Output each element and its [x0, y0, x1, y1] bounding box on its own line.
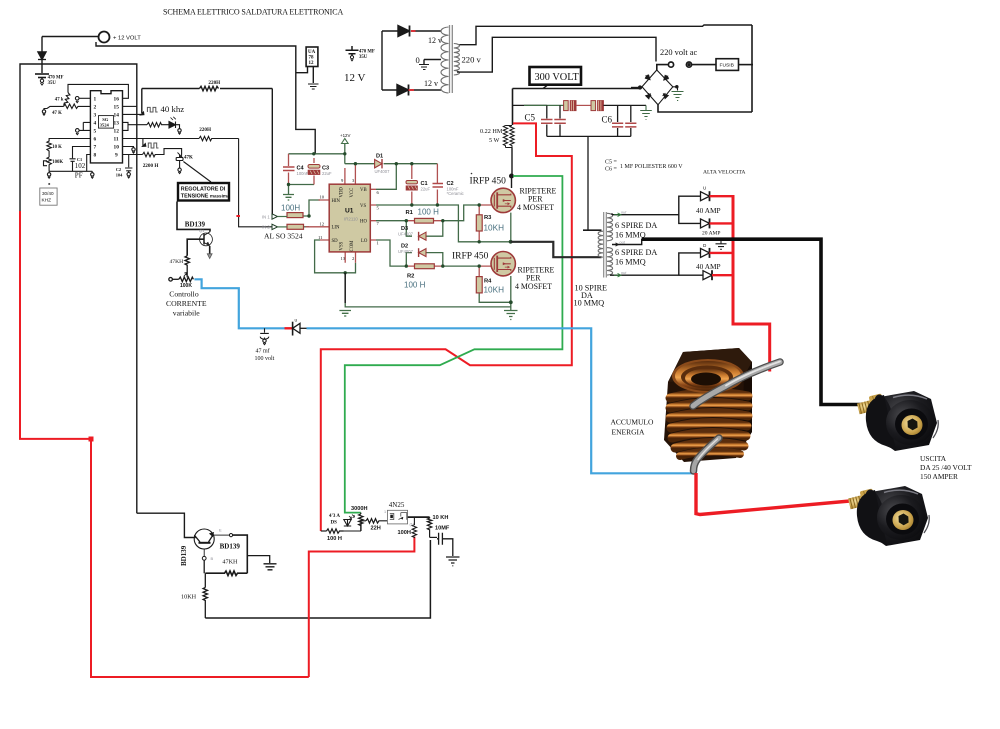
wire ground rail pins 7 8 — [49, 170, 92, 172]
svg-text:2: 2 — [352, 256, 355, 261]
transformer T1 secondary winding — [454, 44, 460, 76]
resistor R1 — [415, 218, 434, 223]
svg-text:100H: 100H — [398, 530, 411, 536]
wire pin8 down — [87, 155, 91, 172]
label 10 SPIRE DA 10 MMQ — [574, 284, 608, 308]
wire 300V rail — [513, 88, 640, 90]
wire 47k top rail to pin16 — [68, 84, 128, 98]
wire bridge dc plus — [631, 87, 641, 89]
wire mosfet2 source — [510, 276, 512, 310]
svg-text:AL SO 3524: AL SO 3524 — [264, 232, 303, 241]
svg-text:100H: 100H — [281, 204, 300, 213]
ground filter right green — [640, 105, 652, 119]
red tick diode u — [285, 327, 293, 329]
wire 4N25 out top — [408, 516, 430, 518]
wire left frame — [20, 64, 137, 513]
svg-text:40 AMP: 40 AMP — [696, 206, 721, 215]
wire mosfet drain junction — [510, 148, 514, 189]
svg-text:variabile: variabile — [173, 309, 200, 318]
wire pin9 — [123, 154, 143, 156]
resistor 2200H pin9 — [143, 149, 182, 157]
svg-text:4 MOSFET: 4 MOSFET — [517, 203, 554, 212]
svg-text:11: 11 — [114, 137, 119, 143]
svg-text:9: 9 — [115, 153, 118, 159]
wire C4C3 mid verticals — [289, 154, 315, 185]
svg-text:220 volt ac: 220 volt ac — [660, 48, 697, 57]
svg-text:12: 12 — [320, 221, 325, 226]
svg-text:10KH: 10KH — [181, 594, 197, 601]
fuse FUSIB box — [716, 59, 739, 71]
wire to diode2 — [679, 215, 701, 224]
bracket pins 4-5 to terminal — [80, 122, 91, 130]
ground UA7812 — [308, 84, 319, 89]
svg-text:22uF: 22uF — [421, 186, 431, 191]
wire filter green segment — [524, 104, 564, 106]
svg-text:(1): (1) — [410, 523, 415, 527]
led DS — [344, 520, 362, 532]
transformer T1 core — [450, 25, 453, 93]
ground Q3 — [264, 564, 277, 570]
wire U1 vss black drop — [344, 273, 346, 303]
svg-text:u: u — [295, 318, 298, 323]
diode to terminal pin13 — [169, 122, 176, 129]
svg-text:4N25: 4N25 — [389, 501, 405, 509]
svg-text:ACCUMULO: ACCUMULO — [611, 418, 655, 427]
svg-text:5 W: 5 W — [489, 137, 500, 144]
capacitor 47mf 100volt — [260, 328, 269, 344]
svg-text:+ 12 VOLT: + 12 VOLT — [113, 35, 141, 41]
svg-text:47KH: 47KH — [222, 559, 238, 566]
wire green to 3000H — [360, 513, 362, 514]
capacitor C5b vertical — [559, 105, 561, 136]
wire U1 pin stubs red — [306, 164, 492, 277]
label RIPETERE PER 4 MOSFET bottom — [515, 266, 555, 292]
capacitor 10MF — [437, 533, 453, 556]
red tick IN2 wire — [236, 215, 240, 217]
svg-text:Controllo: Controllo — [169, 290, 199, 299]
svg-text:R2: R2 — [407, 274, 414, 280]
svg-text:5: 5 — [377, 206, 380, 211]
steel rod bottom — [694, 438, 720, 471]
svg-text:300 VOLT: 300 VOLT — [535, 72, 580, 83]
svg-text:12: 12 — [309, 61, 315, 66]
box 300 VOLT — [530, 67, 582, 89]
svg-text:13: 13 — [341, 256, 346, 261]
wire secondary bottom 220v — [457, 37, 656, 72]
svg-text:22H: 22H — [371, 526, 381, 532]
wire filter top rail right — [603, 104, 646, 106]
node terminal ac1 — [668, 62, 673, 67]
wire secondary top 220v — [459, 25, 752, 45]
label ACCUMULO ENERGIA — [611, 418, 655, 437]
potentiometer 100K — [47, 157, 52, 171]
resistor 100H opto vertical — [412, 524, 416, 538]
svg-text:9: 9 — [341, 178, 344, 183]
4N25 led — [390, 514, 394, 520]
wire VS net — [376, 205, 511, 242]
svg-text:1: 1 — [94, 96, 97, 102]
node red junction — [89, 437, 94, 442]
svg-text:U: U — [703, 186, 706, 191]
diode D3 — [419, 232, 426, 241]
diode D2 — [419, 248, 426, 257]
svg-text:3000H: 3000H — [351, 506, 367, 512]
wire pin13-12 bracket — [123, 122, 148, 130]
optocoupler 4N25 body — [387, 510, 407, 524]
svg-text:1 MF POLIESTER 600 V: 1 MF POLIESTER 600 V — [620, 164, 683, 170]
ground terminal left — [48, 171, 50, 172]
box REGOLATORE DI TENSIONE massima — [178, 183, 230, 201]
svg-text:10: 10 — [114, 145, 120, 151]
wire pin14 with arrow — [123, 113, 142, 115]
wire trafo primary top feed — [583, 229, 602, 231]
wire Q3 base to 10KH — [204, 560, 205, 587]
capacitor C2 ceramic — [433, 184, 444, 188]
svg-text:11: 11 — [318, 235, 323, 240]
transistor Q4 BD139 upper — [200, 233, 213, 246]
svg-text:IRFP 450: IRFP 450 — [470, 177, 507, 187]
resistor 100H led — [327, 529, 344, 534]
resistor 220H pin11 — [199, 136, 239, 141]
svg-text:C5 =: C5 = — [605, 160, 618, 166]
resistor 47k diagonal pin2-pin16 — [64, 93, 70, 106]
svg-text:ENERGIA: ENERGIA — [612, 428, 645, 437]
resistor 47KH q3 — [205, 571, 247, 576]
svg-text:IR2110: IR2110 — [344, 217, 358, 222]
plates C6 red — [612, 123, 636, 127]
svg-text:COM: COM — [350, 240, 355, 252]
svg-text:7: 7 — [377, 221, 380, 226]
svg-text:220 v: 220 v — [462, 55, 482, 65]
connector J1 output top — [856, 391, 938, 451]
svg-text:3: 3 — [94, 113, 97, 119]
wire D1 out rail — [384, 163, 438, 165]
wire UA7812 input pin — [296, 67, 308, 73]
svg-text:4 MOSFET: 4 MOSFET — [515, 282, 552, 291]
green arrow out top — [614, 213, 621, 217]
resistor squiggle pin13 — [147, 123, 169, 128]
bridge rectifier — [631, 70, 678, 105]
wire Q3 ground branch — [247, 556, 269, 563]
wire secondary top out — [612, 196, 701, 215]
diode D6 20amp — [701, 218, 710, 228]
svg-text:DS: DS — [331, 521, 338, 526]
wire red diode D8 out — [712, 274, 733, 276]
wire filter bottom rail — [547, 135, 631, 137]
svg-text:LIN: LIN — [332, 226, 341, 231]
wire Q3 emitter lead — [214, 534, 230, 536]
coil turns — [670, 392, 748, 456]
resistor R3 — [476, 215, 482, 231]
svg-text:3: 3 — [352, 178, 355, 183]
svg-text:100 volt: 100 volt — [255, 356, 275, 362]
svg-text:2: 2 — [94, 105, 97, 111]
ground bridge right green — [672, 92, 684, 101]
svg-text:40 khz: 40 khz — [161, 104, 185, 114]
resistor 3000H vertical — [359, 514, 363, 531]
wire red diode D7 out — [710, 252, 734, 254]
connector J2 output bottom — [847, 486, 929, 546]
svg-text:10MF: 10MF — [435, 526, 450, 532]
wire filter to trafo primary top — [587, 136, 589, 230]
label 4'3 A DS — [329, 514, 340, 526]
node Q3 base terminal — [202, 556, 206, 560]
resistor 47KH q4 — [185, 256, 189, 278]
svg-text:100K: 100K — [180, 283, 192, 289]
label Controllo CORRENTE variabile — [166, 290, 207, 318]
svg-text:VB: VB — [360, 188, 367, 193]
svg-text:R3: R3 — [484, 215, 492, 221]
wire R4 bottom — [479, 293, 511, 302]
svg-text:0.22 HM: 0.22 HM — [480, 128, 503, 135]
wire mosfet1 source — [510, 213, 512, 242]
svg-text:R4: R4 — [484, 279, 492, 285]
svg-text:VDD: VDD — [340, 187, 345, 198]
wire SD loop — [315, 240, 356, 273]
wire green rail C4 C3 bottom — [289, 184, 315, 186]
wire ac2 to fuse — [692, 64, 716, 66]
wire 220ac bottom — [658, 105, 752, 112]
wire U1 gnd rail — [345, 303, 511, 307]
svg-text:220H: 220H — [208, 80, 220, 86]
svg-text:R1: R1 — [406, 210, 414, 216]
plates C5 red — [541, 120, 636, 127]
svg-text:30/40: 30/40 — [42, 191, 54, 196]
svg-text:10 KH: 10 KH — [433, 515, 449, 521]
svg-text:14: 14 — [114, 113, 120, 119]
capacitor C1 102 PF — [70, 159, 76, 172]
diode D5 40amp — [701, 186, 710, 202]
arrow IN1 — [262, 214, 287, 220]
wire C1 stems — [412, 164, 438, 205]
svg-text:12: 12 — [114, 129, 120, 135]
svg-text:100nF: 100nF — [297, 171, 309, 176]
wire regolatore to Q4 collector — [177, 202, 210, 232]
svg-text:FUSIB: FUSIB — [720, 63, 734, 69]
svg-text:CORRENTE: CORRENTE — [166, 299, 207, 308]
optocoupler circuit — [321, 510, 460, 566]
svg-text:20 AMP: 20 AMP — [702, 231, 721, 237]
svg-text:5: 5 — [94, 129, 97, 135]
diode bottom 12v — [397, 85, 409, 96]
wire trimmer diagonal to regolatore — [183, 162, 211, 183]
svg-text:100 H: 100 H — [404, 281, 426, 290]
svg-text:16 MMQ: 16 MMQ — [615, 258, 646, 267]
svg-text:15: 15 — [114, 105, 120, 111]
label UA 78 12 — [308, 50, 316, 66]
pin 1 wire and terminal — [80, 97, 91, 99]
resistor 10KH opto — [427, 517, 431, 537]
label 47 mf 100 volt — [255, 348, 275, 363]
svg-text:47 mf: 47 mf — [256, 348, 270, 355]
svg-text:2200 H: 2200 H — [143, 163, 159, 169]
wire bottom rail q3 to 4n25 — [205, 540, 430, 618]
svg-text:IRFP 450: IRFP 450 — [452, 252, 489, 262]
stub pulse2 — [142, 139, 144, 146]
svg-text:C6 =: C6 = — [605, 167, 618, 173]
label 6 SPIRE DA 16 MMQ top — [615, 221, 657, 240]
svg-text:C6: C6 — [602, 115, 613, 125]
wire 220ac right border — [751, 25, 753, 112]
wire pin11 long — [123, 138, 200, 140]
capacitor C1 polarized — [406, 181, 418, 191]
svg-text:UF4007: UF4007 — [375, 169, 391, 174]
resistor 10 K pin6 — [47, 139, 91, 158]
transformer T1 primary winding — [441, 27, 449, 93]
svg-text:*Ceramic: *Ceramic — [447, 191, 464, 196]
svg-text:B: B — [211, 556, 214, 561]
svg-text:VSS: VSS — [340, 241, 345, 250]
svg-text:C5: C5 — [525, 113, 536, 123]
svg-text:IN 2: IN 2 — [262, 225, 270, 230]
wire red hv path — [321, 123, 572, 531]
wire output plus thick black — [642, 239, 867, 404]
core block hexagon — [664, 348, 752, 462]
4N25 transistor — [399, 513, 407, 520]
wire Q4 emitter arrow — [209, 246, 211, 254]
wire filter top rail left — [513, 104, 547, 106]
wire LO net — [376, 240, 479, 266]
svg-text:470 MF: 470 MF — [48, 76, 64, 81]
choke L2 emi — [591, 101, 603, 111]
resistor 100H in2 — [287, 224, 304, 229]
svg-text:47 k: 47 k — [55, 97, 64, 102]
svg-text:REGOLATORE DI: REGOLATORE DI — [181, 186, 226, 192]
svg-text:out: out — [620, 240, 626, 244]
svg-text:0: 0 — [416, 55, 420, 65]
resistor 0.22HM 5W dual — [503, 126, 514, 148]
IC U2 SG3524 body — [90, 91, 122, 163]
svg-text:7: 7 — [94, 145, 97, 151]
U1 pin numbers — [318, 178, 380, 261]
wire D3 loop — [406, 221, 443, 237]
wire led node to 22H — [361, 521, 366, 531]
wire 47K to ground — [44, 106, 64, 109]
transistor Q2 IRFP450 bottom — [491, 252, 515, 276]
capacitor 470MF 35U rail — [346, 46, 359, 56]
IC U1 IR2110 body — [329, 184, 370, 252]
svg-text:470 MF: 470 MF — [359, 50, 375, 55]
diode D7 40amp — [701, 243, 710, 258]
wire 100H-1 out to HIN — [303, 200, 320, 216]
wire C4 C3 bottom ground stem — [288, 185, 290, 195]
svg-text:10 MMQ: 10 MMQ — [574, 299, 605, 308]
capacitor C4 — [283, 167, 295, 171]
svg-text:1: 1 — [384, 510, 386, 514]
wire UA7812 ground pin — [312, 67, 314, 84]
wire center tap — [424, 60, 441, 65]
IC U2 inner label box SG3524 — [99, 116, 114, 129]
svg-text:U1: U1 — [345, 208, 354, 215]
node +12 VOLT terminal — [99, 32, 110, 43]
ground center tap — [716, 241, 727, 249]
wire +12V arrow stem — [344, 143, 346, 164]
svg-text:4'3 A: 4'3 A — [329, 514, 340, 519]
transformer T2 core — [604, 212, 607, 278]
svg-text:Q1: Q1 — [199, 228, 205, 233]
pulse symbol pin11 — [148, 143, 158, 148]
svg-text:KHZ: KHZ — [42, 198, 52, 204]
svg-text:16: 16 — [114, 96, 120, 102]
svg-text:12 V: 12 V — [344, 72, 366, 84]
wire 300V down to filter — [512, 89, 514, 126]
resistor 10KH q3 — [203, 588, 207, 619]
capacitor 470MF 35V input — [41, 60, 43, 73]
transformer T2 secondary top winding — [607, 213, 613, 240]
svg-text:USCITA: USCITA — [920, 454, 947, 463]
capacitor C3 polarized — [308, 165, 320, 175]
svg-text:12 v: 12 v — [428, 36, 442, 45]
wire Q4 base — [187, 239, 204, 256]
svg-text:D1: D1 — [376, 154, 383, 160]
diode D8 40amp — [703, 270, 712, 280]
svg-text:220H: 220H — [199, 127, 211, 133]
svg-text:10KH: 10KH — [484, 224, 505, 233]
wire Q3 base stem — [203, 549, 205, 556]
svg-text:47K: 47K — [184, 155, 193, 160]
wire red bottom loop — [20, 211, 414, 677]
wire fuse to border — [739, 64, 754, 66]
resistor 22H — [366, 519, 387, 524]
svg-text:104: 104 — [116, 173, 123, 178]
label RIPETERE PER 4 MOSFET top — [517, 187, 557, 213]
wire to diode4 — [679, 274, 703, 276]
choke L1 emi — [564, 101, 576, 111]
svg-text:PF: PF — [75, 171, 83, 179]
label 470 MF 35U rail — [359, 50, 375, 61]
ground terminal pin8 — [91, 171, 93, 172]
svg-text:HIN: HIN — [332, 199, 341, 204]
svg-text:10: 10 — [320, 195, 325, 200]
node terminal ac2 — [686, 62, 691, 67]
inductor photo accumulo energia — [664, 348, 780, 471]
wire red diode D6 out — [710, 222, 734, 224]
capacitor C2 104 — [125, 155, 132, 173]
wire vcc rail — [345, 163, 375, 165]
red tick diode top — [411, 30, 416, 32]
ground U1 eagle — [339, 311, 351, 317]
black arrow center tap — [613, 243, 619, 246]
power arrow +12V — [340, 133, 350, 144]
ground center tap — [419, 65, 429, 70]
wire red to 100H led resistor — [321, 530, 327, 532]
wire red cathode bus to coil — [733, 195, 770, 372]
wire blue path — [194, 279, 694, 473]
wire pin7 down — [73, 147, 91, 159]
svg-text:22uF: 22uF — [322, 171, 332, 176]
wire ac1 stub — [656, 65, 668, 71]
svg-text:E: E — [219, 528, 222, 533]
green arrow out bottom — [614, 273, 621, 277]
arrow IN2 — [262, 224, 287, 230]
box 30/40 KHZ — [40, 183, 57, 205]
svg-text:100 H: 100 H — [418, 208, 440, 217]
label USCITA DA 25/40 VOLT 150 AMPER — [920, 454, 972, 481]
svg-text:78: 78 — [309, 56, 315, 61]
svg-text:SG: SG — [102, 117, 109, 122]
wire 220H rail top — [142, 89, 272, 114]
red tick diode bottom — [409, 89, 415, 91]
resistor 47K pin2 — [64, 104, 91, 109]
ground C4C3 eagle — [283, 195, 294, 201]
svg-text:4: 4 — [94, 121, 97, 127]
svg-text:SD: SD — [332, 239, 339, 244]
diode D1 — [375, 159, 382, 168]
svg-text:C2: C2 — [116, 167, 121, 172]
svg-text:BD139: BD139 — [220, 543, 241, 551]
wire +12V feed to UA7812 — [96, 42, 315, 154]
svg-text:35U: 35U — [48, 81, 57, 86]
